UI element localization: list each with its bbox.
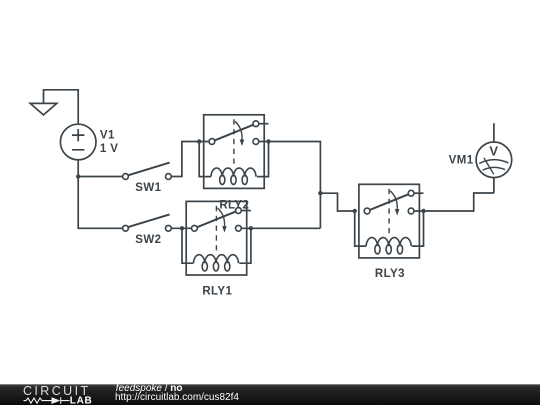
svg-text:VM1: VM1 <box>449 154 474 166</box>
svg-text:V1: V1 <box>100 130 115 142</box>
svg-text:V: V <box>489 144 498 159</box>
svg-text:SW1: SW1 <box>135 182 161 194</box>
svg-text:RLY3: RLY3 <box>375 268 405 280</box>
svg-text:1 V: 1 V <box>100 143 118 155</box>
svg-text:SW2: SW2 <box>135 234 161 246</box>
svg-text:LAB: LAB <box>70 395 93 405</box>
svg-text:RLY1: RLY1 <box>202 286 232 298</box>
svg-text:http://circuitlab.com/cus82f4: http://circuitlab.com/cus82f4 <box>115 392 239 403</box>
svg-text:RLY2: RLY2 <box>219 200 249 212</box>
